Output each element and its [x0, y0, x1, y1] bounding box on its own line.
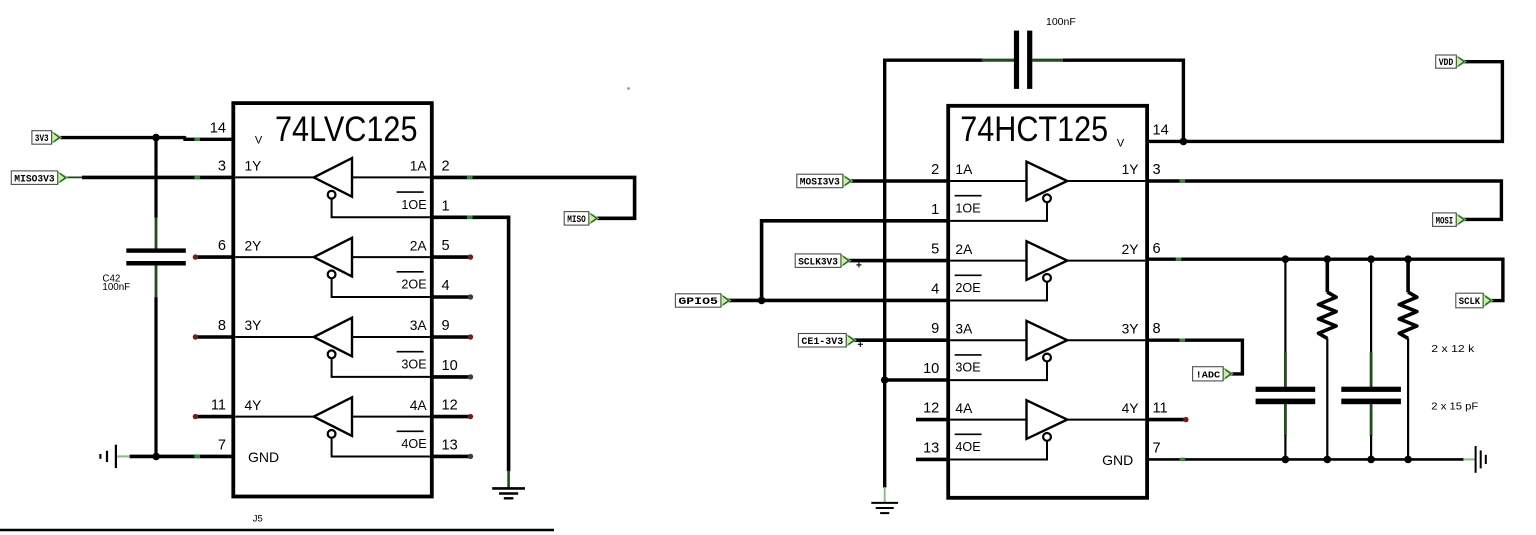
svg-text:GND: GND — [1102, 452, 1133, 468]
svg-text:1: 1 — [931, 202, 939, 218]
svg-text:8: 8 — [1153, 321, 1161, 337]
svg-text:9: 9 — [931, 321, 939, 337]
svg-text:2OE: 2OE — [955, 281, 980, 295]
svg-text:SCLK: SCLK — [1459, 297, 1481, 308]
svg-text:14: 14 — [210, 120, 226, 136]
svg-text:1Y: 1Y — [245, 159, 262, 174]
svg-text:13: 13 — [923, 440, 939, 456]
svg-text:4Y: 4Y — [245, 398, 262, 413]
svg-text:4OE: 4OE — [955, 440, 980, 454]
svg-text:74HCT125: 74HCT125 — [960, 109, 1108, 149]
svg-text:3OE: 3OE — [401, 357, 426, 371]
svg-text:4: 4 — [931, 281, 939, 297]
svg-text:SCLK3V3: SCLK3V3 — [798, 257, 838, 268]
svg-text:1Y: 1Y — [1122, 162, 1139, 177]
svg-text:2: 2 — [442, 158, 450, 174]
svg-text:2: 2 — [931, 162, 939, 178]
svg-text:J5: J5 — [253, 514, 263, 525]
svg-text:1A: 1A — [955, 162, 973, 177]
svg-text:GND: GND — [248, 449, 279, 465]
svg-text:1: 1 — [442, 198, 450, 214]
svg-text:4A: 4A — [955, 401, 973, 416]
svg-text:4A: 4A — [410, 398, 428, 413]
svg-text:2Y: 2Y — [245, 238, 262, 253]
svg-text:2A: 2A — [410, 238, 428, 253]
svg-text:2 x 12 k: 2 x 12 k — [1431, 344, 1475, 355]
svg-text:7: 7 — [1153, 440, 1161, 456]
svg-text:3V3: 3V3 — [35, 134, 49, 145]
svg-text:7: 7 — [218, 437, 226, 453]
svg-text:V: V — [255, 135, 263, 147]
svg-text:10: 10 — [923, 361, 939, 377]
svg-text:3OE: 3OE — [955, 361, 980, 375]
svg-text:CE1-3V3: CE1-3V3 — [801, 337, 843, 348]
svg-text:4Y: 4Y — [1122, 401, 1139, 416]
svg-text:!ADC: !ADC — [1196, 369, 1221, 380]
svg-text:6: 6 — [1153, 241, 1161, 257]
svg-text:1OE: 1OE — [401, 198, 426, 212]
svg-text:V: V — [1117, 137, 1125, 149]
svg-text:3: 3 — [218, 158, 226, 174]
svg-text:14: 14 — [1153, 122, 1169, 138]
svg-text:4: 4 — [442, 278, 450, 294]
svg-text:MOSI: MOSI — [1436, 216, 1454, 227]
svg-text:2Y: 2Y — [1122, 242, 1139, 257]
svg-text:1OE: 1OE — [955, 201, 980, 215]
svg-text:74LVC125: 74LVC125 — [275, 109, 418, 149]
svg-text:3Y: 3Y — [245, 318, 262, 333]
svg-text:11: 11 — [211, 398, 226, 414]
svg-text:MOSI3V3: MOSI3V3 — [800, 178, 840, 189]
svg-text:VDD: VDD — [1439, 58, 1454, 69]
svg-text:2OE: 2OE — [401, 278, 426, 292]
svg-text:2A: 2A — [955, 242, 973, 257]
svg-text:9: 9 — [442, 318, 450, 334]
svg-text:13: 13 — [442, 437, 458, 453]
svg-text:3A: 3A — [955, 321, 973, 336]
svg-text:6: 6 — [218, 238, 226, 254]
svg-text:2 x 15 pF: 2 x 15 pF — [1431, 402, 1478, 413]
svg-text:11: 11 — [1153, 401, 1168, 417]
svg-text:GPIO5: GPIO5 — [678, 297, 718, 308]
svg-text:10: 10 — [442, 358, 458, 374]
svg-text:MISO: MISO — [567, 215, 586, 226]
svg-text:5: 5 — [442, 238, 450, 254]
svg-text:12: 12 — [923, 401, 939, 417]
svg-text:3: 3 — [1153, 162, 1161, 178]
svg-text:3Y: 3Y — [1122, 321, 1139, 336]
svg-text:1A: 1A — [410, 159, 428, 174]
svg-text:100nF: 100nF — [102, 282, 130, 293]
svg-text:100nF: 100nF — [1046, 16, 1076, 28]
svg-text:3A: 3A — [410, 318, 428, 333]
svg-text:MISO3V3: MISO3V3 — [14, 174, 54, 185]
svg-text:12: 12 — [442, 398, 458, 414]
svg-text:5: 5 — [931, 242, 939, 258]
svg-text:4OE: 4OE — [401, 437, 426, 451]
svg-text:8: 8 — [218, 318, 226, 334]
